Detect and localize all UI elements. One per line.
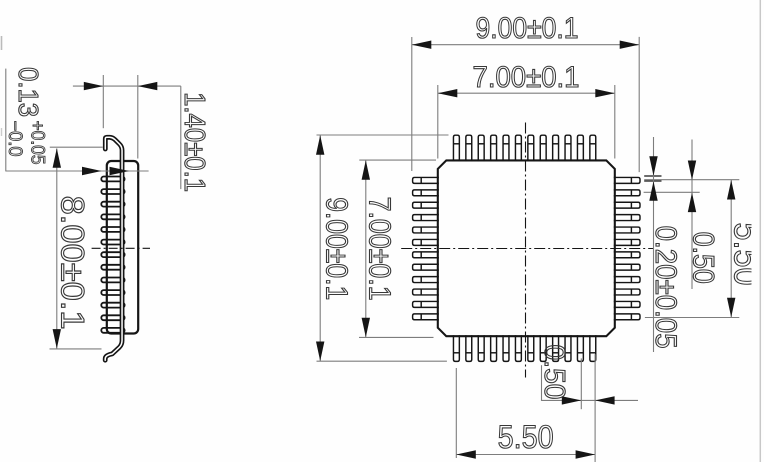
svg-text:7.00±0.1: 7.00±0.1 (362, 197, 397, 301)
QFP body outline with chamfered corners (438, 160, 615, 336)
svg-text:5.50: 5.50 (498, 419, 554, 455)
svg-text:0.13: 0.13 (13, 67, 44, 117)
right-side long extension line (pitch ref top) (644, 179, 739, 181)
svg-text:0.50: 0.50 (538, 345, 570, 400)
dim 1.40 extension lines (102, 75, 104, 128)
dim 7.00 vertical (left) (365, 160, 367, 337)
svg-text:9.00±0.1: 9.00±0.1 (319, 197, 354, 300)
dim 8.00 vertical line + arrows (56, 149, 58, 349)
dim 1.40 line + arrows (73, 85, 181, 87)
QFP horizontal centerline (401, 248, 653, 250)
side view horizontal centerline (92, 247, 150, 249)
package body side profile (107, 161, 138, 334)
bottom dim 5.50 (455, 368, 457, 458)
QFP pins: 12 per side, outlined with crossbar near tip (413, 135, 640, 361)
dim 9.00 horizontal (top) (412, 44, 639, 46)
svg-text:−0.0: −0.0 (4, 121, 25, 157)
bottom pitch dim 0.50 (541, 365, 543, 401)
svg-text:7.00±0.1: 7.00±0.1 (473, 61, 580, 94)
dim 7.00 horizontal (top) (438, 92, 615, 94)
dim 0.13 leader bracket (5, 69, 7, 172)
QFP vertical centerline (525, 123, 527, 378)
dim 9.00 vertical (left) (319, 135, 321, 361)
svg-text:+0.05: +0.05 (27, 121, 48, 165)
page edge white cover + artifacts (752, 0, 764, 462)
gull-wing lead profile (top and bottom rows edge-on) (105, 137, 122, 360)
dim 8.00 extension lines (50, 146, 103, 148)
svg-text:0.20±0.05: 0.20±0.05 (649, 226, 682, 349)
svg-text:8.00±0.1: 8.00±0.1 (55, 196, 91, 330)
right-side pin2 center extension (644, 191, 700, 193)
right-side pin width reference lines (0.20) (644, 175, 661, 177)
dim 0.20±0.05 vertical (653, 137, 655, 352)
svg-text:9.00±0.1: 9.00±0.1 (476, 12, 579, 45)
dim 0.50 right vertical (691, 140, 693, 290)
svg-text:1.40±0.1: 1.40±0.1 (178, 92, 210, 192)
side-view lead rungs (near pin row seen edge-on) (101, 177, 124, 333)
svg-text:0.50: 0.50 (686, 232, 719, 284)
dim 5.50 right vertical (cut at edge) (730, 180, 732, 318)
